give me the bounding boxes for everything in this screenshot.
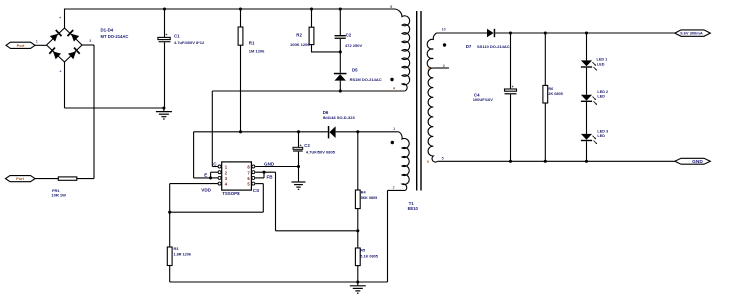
wire (bottom ground rail) <box>170 281 388 283</box>
wire (IC GND to C3) <box>255 166 298 168</box>
wire (primary ground run) <box>65 107 164 109</box>
ground (primary DC-) <box>163 108 165 111</box>
svg-text:IN4148 SO-D-323: IN4148 SO-D-323 <box>323 115 356 120</box>
wire (aux pin 2 stub) <box>388 189 406 191</box>
port GND <box>675 158 711 165</box>
svg-text:2: 2 <box>443 64 445 68</box>
svg-text:2: 2 <box>393 186 395 190</box>
transformer T1 secondary winding (pins 10-3,2-5) <box>427 33 437 162</box>
svg-text:C3: C3 <box>304 143 310 148</box>
svg-text:4.7uF/400V 8*12: 4.7uF/400V 8*12 <box>174 40 205 45</box>
capacitor C4 <box>505 33 517 161</box>
svg-text:1: 1 <box>393 127 395 131</box>
transformer core lines <box>416 11 418 191</box>
wire (drain rail, transformer pin 4 to IC pin C) <box>212 90 404 92</box>
svg-text:+: + <box>300 143 302 147</box>
diode D1 (top-left arm) <box>50 29 63 41</box>
resistor R6 <box>543 33 548 161</box>
wire (VDD/aux node) <box>194 131 328 133</box>
wire (VDD pin 4 to R3) <box>170 183 218 185</box>
diode D4 (bottom-right arm) <box>68 47 81 59</box>
svg-text:100K 1206: 100K 1206 <box>290 42 310 47</box>
svg-text:472 250V: 472 250V <box>345 43 362 48</box>
svg-text:E: E <box>204 172 207 177</box>
wire (pin 10 stub to D7) <box>437 32 488 34</box>
wire (pins 2,3 tie to E) <box>211 171 219 173</box>
resistor R1 <box>238 9 243 132</box>
node junction (R1 bottom) <box>239 130 242 133</box>
resistor R2 <box>309 9 340 52</box>
node junction (C1 top) <box>163 7 166 10</box>
resistor R3 <box>167 247 172 266</box>
ground (controller ground) <box>357 282 359 285</box>
resistor R5 <box>355 231 360 282</box>
svg-text:4: 4 <box>393 86 395 90</box>
svg-text:10: 10 <box>442 28 446 32</box>
svg-text:RS1M DO-214AC: RS1M DO-214AC <box>350 77 382 82</box>
node junction (C2 top) <box>339 7 342 10</box>
svg-text:3: 3 <box>428 67 430 71</box>
node junction (LED top) <box>585 31 588 34</box>
capacitor C3 <box>293 132 303 182</box>
svg-text:R6: R6 <box>548 87 553 91</box>
node junction (C3 top) <box>297 130 300 133</box>
svg-text:4.7UF/50V 0805: 4.7UF/50V 0805 <box>306 149 336 154</box>
LED1 <box>581 33 597 70</box>
svg-text:1: 1 <box>36 40 38 44</box>
capacitor C2 <box>335 9 346 73</box>
secondary tap stub (pins 3,2) <box>433 67 449 69</box>
wire (bridge - down) <box>64 62 66 108</box>
node junction (FB tie) <box>262 171 265 174</box>
node junction (ground rail) <box>356 280 359 283</box>
svg-text:5: 5 <box>390 5 392 9</box>
diode D6 <box>328 126 399 138</box>
wire (LED3 to - rail) <box>586 141 588 161</box>
svg-text:TSSOP8: TSSOP8 <box>222 191 240 196</box>
node junction (R1 top) <box>239 7 242 10</box>
node junction (C4 bottom) <box>509 160 512 163</box>
svg-text:MT DO-214AC: MT DO-214AC <box>101 34 129 39</box>
resistor FR1 (fusible) <box>58 177 77 180</box>
svg-text:56K 0805: 56K 0805 <box>361 196 377 200</box>
node junction (CS to R3 top) <box>168 211 171 214</box>
node junction (C3/GND) <box>297 165 300 168</box>
svg-text:Port: Port <box>17 43 25 48</box>
node junction (R4/R5/FB) <box>356 229 359 232</box>
svg-text:2K 0805: 2K 0805 <box>548 92 562 96</box>
wire (output - rail) <box>438 160 675 162</box>
svg-text:1.8R 1206: 1.8R 1206 <box>174 253 192 257</box>
svg-text:R5: R5 <box>360 249 365 253</box>
node junction (R2/C2 bottom) <box>339 50 342 53</box>
wire (bridge + to HV rail) <box>64 9 66 28</box>
svg-text:VDD: VDD <box>201 188 211 193</box>
svg-text:D7: D7 <box>466 44 472 49</box>
transformer T1 primary winding (pins 5-4) <box>394 9 410 91</box>
resistor R4 <box>355 132 360 231</box>
wire HV rail <box>64 8 394 10</box>
transformer T1 aux winding (pins 1-2) <box>399 132 409 191</box>
svg-text:LED: LED <box>597 63 605 67</box>
svg-text:C2: C2 <box>346 33 352 38</box>
svg-text:SS110 DO-214AC: SS110 DO-214AC <box>477 44 510 49</box>
svg-text:LED: LED <box>597 94 605 98</box>
node junction (D5 anode on drain rail) <box>339 89 342 92</box>
svg-text:FB: FB <box>267 174 274 179</box>
wire <box>35 178 58 180</box>
node junction (R2 top) <box>310 7 313 10</box>
node junction (LED bottom) <box>585 160 588 163</box>
wire (output + rail) <box>495 32 675 34</box>
svg-text:CS: CS <box>253 188 259 193</box>
wire (R3 bottom to ground rail) <box>169 266 171 283</box>
wire (C riser) <box>211 91 213 167</box>
svg-text:3: 3 <box>89 39 91 43</box>
svg-text:R2: R2 <box>296 32 302 37</box>
wire (E path) <box>193 132 195 178</box>
svg-text:LED 2: LED 2 <box>597 90 608 94</box>
svg-text:100UF/16V: 100UF/16V <box>473 97 494 102</box>
pin numbers 1-4 <box>225 165 228 187</box>
port output 9.6V 300mA <box>675 30 711 36</box>
aux phase dot <box>391 141 394 144</box>
ground (C3/IC GND) <box>292 181 306 183</box>
wire <box>35 44 47 46</box>
IC pin circles left (pins 1-4) <box>218 165 221 185</box>
diode D3 (bottom-left arm) <box>49 47 62 59</box>
svg-text:5: 5 <box>442 157 444 161</box>
node junction (R4 top) <box>356 130 359 133</box>
svg-text:1M 1206: 1M 1206 <box>249 48 265 53</box>
svg-text:10R 1W: 10R 1W <box>51 193 66 198</box>
node junction (R6 top) <box>544 31 547 34</box>
IC pin circles right (pins 8-5) <box>252 165 255 185</box>
svg-text:GND: GND <box>264 162 275 167</box>
svg-text:LED: LED <box>597 134 605 138</box>
primary phase dot <box>390 78 393 81</box>
svg-text:GND: GND <box>692 159 703 165</box>
op-amp/controller U1 TSSOP8 body <box>222 162 252 190</box>
svg-text:5: 5 <box>427 160 429 164</box>
LED2 <box>581 68 597 105</box>
svg-text:+: + <box>512 85 514 89</box>
svg-text:R1: R1 <box>249 40 255 45</box>
wire (FB net: pins 6,7 to divider) <box>255 171 275 173</box>
node junction (C1 ground) <box>162 106 165 109</box>
svg-text:5.1K 0805: 5.1K 0805 <box>360 255 378 259</box>
wire (bridge AC right) <box>82 44 94 46</box>
node junction (C4 top) <box>509 31 512 34</box>
LED3 <box>581 102 597 144</box>
secondary phase dot <box>443 43 446 46</box>
svg-text:9.6V 300mA: 9.6V 300mA <box>680 31 703 36</box>
pin numbers 8-5 <box>247 165 250 187</box>
wire <box>77 178 94 180</box>
port Port2 (AC input) <box>6 176 36 182</box>
capacitor C1 <box>158 9 171 108</box>
svg-text:D5: D5 <box>352 67 358 72</box>
svg-text:R3: R3 <box>174 247 179 251</box>
bridge rectifier D1-D4 diamond <box>47 28 83 62</box>
diode D2 (top-right arm) <box>67 29 80 41</box>
svg-text:Port: Port <box>16 176 24 181</box>
svg-text:EE10: EE10 <box>408 206 419 211</box>
wire (CS net) <box>255 183 263 185</box>
svg-text:D1-D4: D1-D4 <box>101 27 114 32</box>
diode D7 <box>487 29 495 37</box>
node junction (R6 bottom) <box>544 160 547 163</box>
diode D5 <box>334 73 347 91</box>
svg-text:LED 1: LED 1 <box>597 57 608 61</box>
svg-text:C1: C1 <box>174 33 180 38</box>
node junction (E) <box>209 176 212 179</box>
port Port1 (AC input) <box>6 42 35 48</box>
